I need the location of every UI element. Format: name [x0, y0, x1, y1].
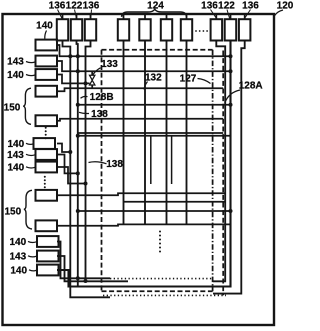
wire pad11 to bottom row 277.5 [57, 242, 110, 279]
wire pad row6 to bus A [57, 144, 70, 153]
sealant 128B dashed rect left [101, 50, 103, 291]
row R6 [78, 132, 223, 134]
companion line 3b [171, 136, 173, 184]
left pad row6 140 [34, 138, 56, 149]
bowtie contact 133 upper stub [91, 71, 93, 75]
left pad row5 150a2 [36, 115, 58, 126]
leader 127 [198, 79, 211, 84]
left pad row10 150b2 [36, 220, 58, 231]
top pad 136 left [57, 19, 68, 40]
svg-text:136: 136 [201, 0, 218, 11]
right vertical V3 from pad 136R2 [213, 40, 245, 293]
sealant 128A dashed right edge [222, 51, 224, 296]
sealant 128B dashed rect bottom [102, 290, 213, 292]
wire pad13 to bottom row 286.5 joining V2 up to pad 122R [57, 40, 231, 286]
left pad row8 140 [36, 162, 58, 173]
svg-text:127: 127 [180, 73, 197, 84]
top pad 136 right [211, 19, 223, 40]
svg-text:143: 143 [7, 56, 24, 67]
svg-text:140: 140 [7, 139, 24, 150]
svg-text:138: 138 [106, 159, 123, 170]
svg-text:140: 140 [10, 265, 27, 276]
bus C from pad 136L2 down [86, 40, 91, 281]
leader 138 mid [89, 162, 107, 164]
substrate border 120 [3, 14, 275, 325]
wire pad row7 to bus B [57, 155, 78, 174]
data line 4 [186, 40, 188, 224]
left pad row4 150a [36, 86, 58, 97]
leader 140 r6 [26, 143, 34, 144]
brace 150 b [24, 190, 32, 229]
wire pad12 to bottom row 281.3 left part [57, 256, 128, 281]
svg-text:133: 133 [101, 59, 118, 70]
leaders top-left labels [58, 10, 92, 19]
bus A from pad 136L1 down around bottom to pad 136R2 [63, 40, 111, 297]
brace 124 [122, 9, 187, 17]
data line 1 [123, 40, 125, 224]
svg-text:150: 150 [4, 102, 21, 113]
leader 140 top [45, 31, 47, 39]
left pad row3 140 [36, 69, 58, 80]
left pad row1 140 [36, 40, 58, 51]
top pad 136 right2 [239, 19, 251, 40]
left pad row12 143 [37, 251, 59, 262]
row R8 from pad row9 [57, 193, 225, 195]
leader 128B [81, 96, 88, 98]
top pad stems [63, 14, 245, 19]
sealant 128B dashed rect top [102, 49, 213, 51]
svg-text:140: 140 [7, 70, 24, 81]
row R10 from bus B [78, 210, 231, 212]
svg-text:140: 140 [9, 237, 26, 248]
svg-text:140: 140 [36, 21, 53, 32]
top pad 124-4 [181, 19, 192, 40]
left pad row13 140 [37, 265, 59, 276]
row R1 from pad row1 [57, 45, 231, 56]
svg-text:128B: 128B [90, 92, 114, 103]
row R3 from pad row4 [57, 88, 223, 91]
dots between top pad groups [195, 30, 208, 32]
cutting line 127 dash-dot right edge [212, 50, 214, 291]
row R5 from pad row5 [57, 119, 223, 121]
data line 2 [144, 40, 146, 224]
svg-text:150: 150 [4, 206, 21, 217]
brace 150 a [23, 88, 31, 124]
data line 3 [166, 40, 168, 224]
left pad row7 143 [36, 149, 58, 160]
leader 143 r7 [26, 154, 35, 155]
bus B from pad 122L down [77, 40, 78, 286]
bowtie contact 133 lower stub [91, 85, 93, 88]
companion line 2b [150, 136, 152, 184]
left pad row2 143 [36, 56, 58, 67]
dots between left pad groups 2 [44, 176, 46, 189]
top pad 122 left [71, 19, 82, 40]
wire pad row8 to bus C [57, 167, 86, 184]
right vertical V1 from pad 136R1 [213, 40, 225, 281]
dots between left pad groups 1 [45, 127, 47, 140]
leader 140 r3 [26, 75, 35, 76]
sealant 128A dotted bottom [103, 294, 226, 296]
leader 133 [93, 68, 101, 75]
leader 138 upper [79, 112, 89, 113]
left pad row11 140 [37, 236, 59, 247]
svg-text:143: 143 [7, 150, 24, 161]
row R9 [124, 201, 226, 203]
leader 140 r13 [29, 270, 37, 271]
left pad row9 150b [36, 190, 58, 201]
leader 132 [144, 82, 148, 90]
svg-text:138: 138 [91, 109, 108, 120]
top pad 136 left2 [85, 19, 96, 40]
leader 128A [225, 90, 240, 103]
bowtie contact 133 triangles [90, 75, 95, 85]
row R7 [78, 135, 231, 137]
leader 143 r2 [26, 62, 35, 63]
top pad 124-1 [118, 19, 129, 40]
row R4 from bus B [78, 104, 231, 106]
leaders top-right labels [211, 10, 251, 19]
row R2 from pad row2 [57, 61, 231, 71]
svg-text:143: 143 [9, 251, 26, 262]
dotted continuation below pixel rows [159, 231, 161, 253]
leader 143 r12 [28, 256, 37, 257]
svg-text:140: 140 [7, 162, 24, 173]
leader 140 r8 [26, 167, 35, 168]
leader 120 [275, 10, 283, 16]
top pad 124-2 [139, 19, 150, 40]
wire pad row3 stepping down to bus C [57, 75, 90, 84]
row R11 from pad row10 [57, 224, 231, 225]
leader 140 r11 [28, 241, 37, 242]
svg-text:120: 120 [277, 1, 293, 12]
top pad 122 right [225, 19, 237, 40]
top pad 124-3 [161, 19, 172, 40]
svg-text:128A: 128A [239, 80, 263, 91]
dotted continuation row 277.5 [110, 278, 213, 280]
